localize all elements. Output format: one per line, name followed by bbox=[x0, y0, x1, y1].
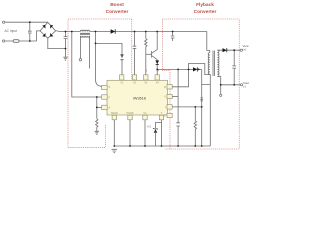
wire VIN sense to pin L2 bbox=[72, 32, 102, 98]
wire node to pin T1 with clamp bbox=[96, 43, 123, 74]
clamp diode D2 on T1 wire bbox=[120, 54, 124, 59]
boost diode D1 bbox=[111, 29, 116, 33]
vertical x178 with cap bbox=[176, 69, 180, 146]
IC U1 body bbox=[102, 75, 173, 120]
secondary return stub bbox=[220, 85, 222, 94]
pin B2 bbox=[128, 115, 132, 120]
pin L3 bbox=[102, 105, 108, 109]
svg-text:iW3616: iW3616 bbox=[133, 97, 146, 101]
wire snubber loop bbox=[189, 64, 211, 147]
svg-text:6V2: 6V2 bbox=[147, 126, 152, 129]
aux diode D4 bbox=[193, 67, 197, 71]
ground for R2 bbox=[95, 131, 99, 134]
wire pin T3 with resistor R3 bbox=[145, 32, 147, 75]
boost inductor L1 winding top bbox=[80, 30, 89, 31]
pin B1 bbox=[112, 115, 116, 120]
svg-text:Converter: Converter bbox=[194, 9, 217, 15]
terminal Vout+ bbox=[240, 49, 242, 51]
winding stub right bbox=[89, 36, 91, 69]
diode D3 under Q1 bbox=[155, 60, 159, 64]
pin B4 bbox=[159, 115, 163, 120]
sense resistor R4 bbox=[194, 107, 196, 146]
resistor R2 zigzag bbox=[96, 119, 98, 127]
pin T4 bbox=[155, 75, 159, 80]
wire DC- from bridge bbox=[48, 38, 66, 48]
svg-text:Flyback: Flyback bbox=[196, 2, 214, 8]
label Boost Converter bbox=[106, 2, 129, 15]
clamp diode on T1 wire bbox=[121, 59, 124, 61]
terminal Vout- bbox=[241, 84, 243, 86]
svg-text:Boost: Boost bbox=[110, 2, 124, 8]
output diode D5 bbox=[223, 48, 227, 52]
wire pin L3 bbox=[97, 106, 102, 108]
winding stub left to test point bbox=[79, 36, 81, 59]
pin R2 bbox=[167, 94, 172, 98]
wire secondary top to output bbox=[217, 49, 241, 51]
transformer secondary winding bbox=[217, 50, 219, 76]
X capacitor across AC bbox=[28, 22, 32, 41]
pin L1 bbox=[102, 85, 108, 89]
pin L2 bbox=[102, 95, 108, 99]
flyback converter dashed box bbox=[163, 19, 240, 149]
svg-text:D: D bbox=[164, 86, 166, 89]
input cap flyback C4 bbox=[171, 32, 175, 42]
pin T3 bbox=[144, 75, 148, 80]
pin B3 bbox=[143, 115, 147, 120]
bridge rectifier BR1 bbox=[40, 22, 56, 38]
MOSFET Q2 blob bbox=[200, 98, 203, 101]
label Flyback Converter bbox=[194, 2, 217, 15]
wire pin R3 bbox=[172, 106, 202, 108]
wire AC line top bbox=[5, 21, 48, 23]
terminal AC bottom bbox=[3, 40, 5, 42]
wire from aux to MOSFET drain line bbox=[201, 69, 203, 146]
fuse F1 bbox=[13, 40, 19, 43]
svg-text:G: G bbox=[164, 115, 166, 118]
inductor core bbox=[80, 33, 90, 34]
output rail bottom bbox=[221, 84, 242, 86]
divider to ground R2 bbox=[96, 97, 98, 131]
svg-text:PGND: PGND bbox=[127, 112, 134, 115]
pin R4 bbox=[167, 113, 172, 117]
pin T1 bbox=[120, 75, 124, 80]
transistor Q1 bbox=[152, 50, 158, 60]
test point circle bbox=[79, 59, 81, 61]
svg-text:Converter: Converter bbox=[106, 9, 129, 15]
bottom ground bus bbox=[114, 145, 210, 147]
bulk capacitor C1 bbox=[64, 32, 68, 58]
wire pin R2 to divider bbox=[172, 96, 178, 98]
red pin marks bbox=[146, 69, 160, 73]
svg-text:(+): (+) bbox=[243, 47, 247, 51]
wire pin T2 with cap bbox=[133, 32, 137, 75]
transformer core lines bbox=[213, 51, 215, 77]
wire aux bus y69.4 bbox=[157, 68, 202, 70]
wire rail to transformer primary bbox=[207, 32, 210, 51]
wire secondary bottom bbox=[217, 77, 220, 85]
wire pin T4 through Q1 and diode bbox=[156, 32, 158, 75]
wire AC line bottom bbox=[5, 31, 40, 41]
svg-text:(-): (-) bbox=[243, 85, 246, 89]
pin R1 bbox=[167, 85, 172, 89]
wire pin R1 bbox=[172, 69, 189, 86]
DC+ rail bbox=[56, 30, 207, 33]
pin T2 bbox=[132, 75, 136, 80]
terminal AC top bbox=[3, 21, 5, 23]
wire switch node down to pin L1 bbox=[96, 32, 102, 87]
svg-text:AC Input: AC Input bbox=[5, 29, 18, 33]
bridge diodes bbox=[42, 25, 53, 37]
pin R3 bbox=[167, 105, 172, 109]
boost converter dashed box bbox=[68, 19, 132, 147]
zener ZD1 wire bbox=[156, 123, 162, 147]
wire bottom pins to bus bbox=[114, 119, 161, 146]
ground symbol main bbox=[112, 149, 118, 152]
secondary stub circle bbox=[220, 94, 222, 96]
transformer T1 primary winding bbox=[208, 53, 210, 75]
zener diode ZD1 bbox=[153, 128, 158, 133]
boost inductor winding bottom bbox=[80, 36, 89, 37]
IC pin labels bbox=[109, 81, 167, 117]
ground for C1 bbox=[63, 57, 67, 60]
base branch to Q1 bbox=[146, 53, 152, 55]
svg-text:SGND: SGND bbox=[111, 112, 118, 115]
output capacitor C5 bbox=[232, 50, 236, 85]
